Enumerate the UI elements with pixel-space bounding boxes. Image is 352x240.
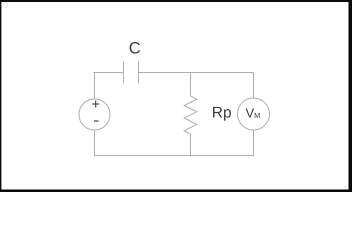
wire source top vertical [94, 73, 96, 100]
wire resistor bottom stub [190, 134, 192, 156]
border frame left [0, 0, 1, 192]
border frame bottom [0, 190, 352, 193]
wire resistor top stub [190, 73, 192, 97]
voltage source U1 circle [79, 99, 110, 130]
voltmeter VM circle [238, 98, 270, 130]
wire source bottom vertical [94, 130, 96, 156]
artifact top-left [3, 3, 8, 8]
artifact bottom-right [344, 186, 347, 189]
capacitor C1 right plate [138, 62, 140, 84]
svg-text:C: C [129, 40, 141, 58]
wire voltmeter top vertical [253, 73, 255, 99]
wire bottom horizontal [94, 155, 254, 157]
wire voltmeter bottom vertical [253, 130, 255, 156]
wire top right horizontal [139, 72, 254, 74]
resistor Rp zigzag [184, 96, 197, 134]
border frame top [0, 0, 352, 2]
svg-text:Rp: Rp [212, 105, 232, 122]
wire top left horizontal [94, 72, 124, 74]
capacitor C1 left plate [123, 62, 125, 84]
source plus sign [92, 101, 99, 108]
border frame right [349, 0, 352, 192]
source minus sign [94, 120, 99, 122]
